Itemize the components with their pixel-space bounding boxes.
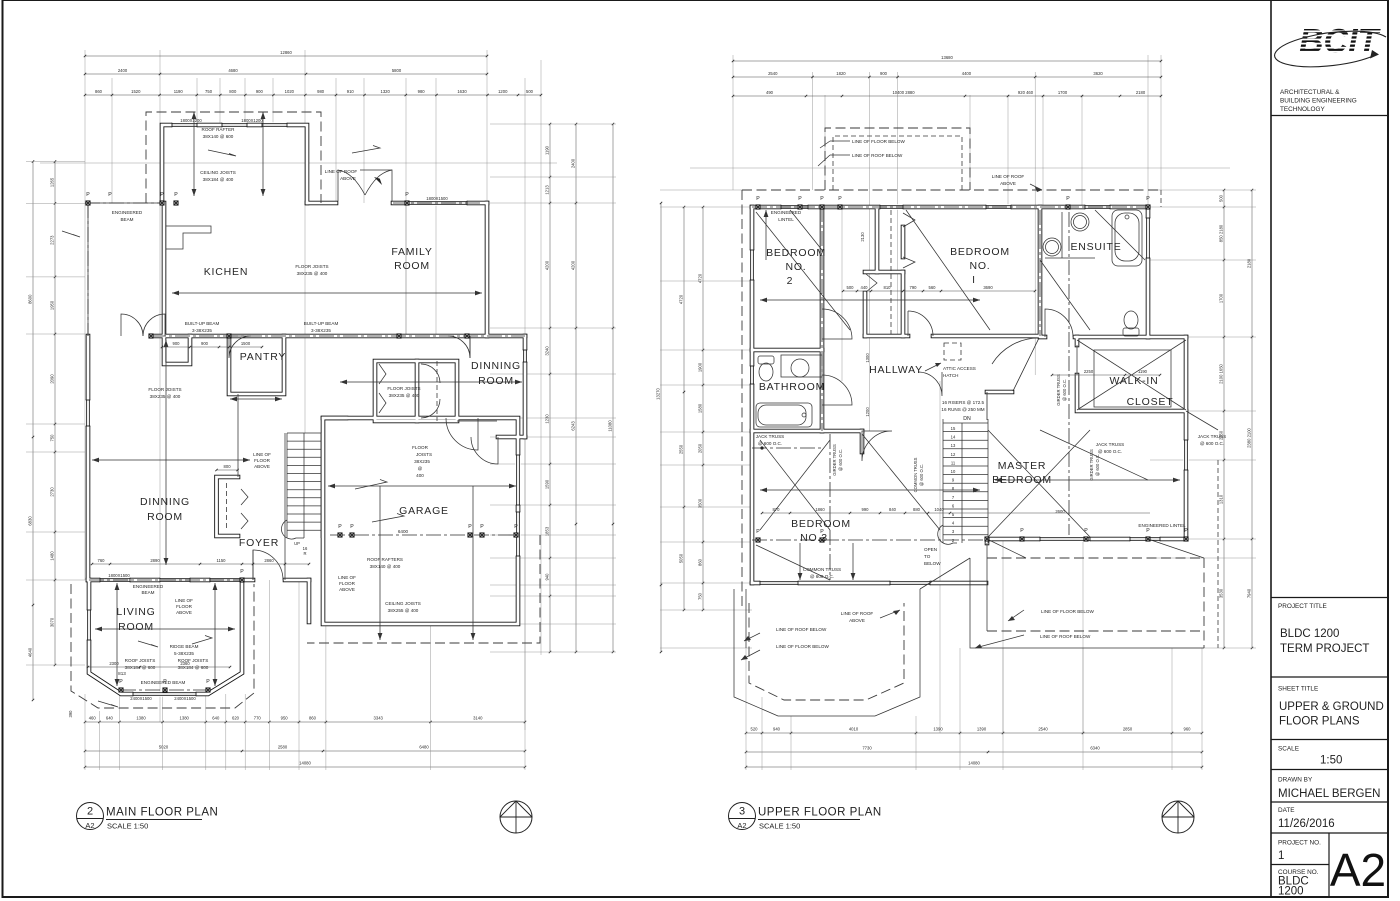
svg-text:NO.3: NO.3 (800, 532, 828, 544)
svg-text:ABOVE: ABOVE (176, 610, 192, 615)
svg-text:P: P (468, 524, 472, 530)
svg-text:10: 10 (951, 469, 956, 474)
svg-text:1: 1 (1278, 850, 1284, 862)
svg-text:2300: 2300 (109, 661, 119, 666)
svg-text:BUILT-UP BEAM: BUILT-UP BEAM (304, 321, 339, 326)
svg-text:5020: 5020 (159, 745, 169, 750)
svg-text:1700: 1700 (1219, 293, 1224, 303)
svg-text:LIVING: LIVING (116, 606, 155, 618)
svg-text:2130: 2130 (860, 232, 865, 242)
svg-text:ABOVE: ABOVE (849, 618, 865, 623)
svg-text:16 RUNS @ 250 MM: 16 RUNS @ 250 MM (941, 407, 984, 412)
middle wall (151, 335, 525, 337)
svg-text:LINE OF ROOF: LINE OF ROOF (325, 169, 358, 174)
svg-text:6400: 6400 (398, 529, 409, 534)
svg-text:HALLWAY: HALLWAY (869, 364, 923, 376)
svg-text:COMMON TRUSS: COMMON TRUSS (913, 457, 918, 492)
svg-text:P: P (206, 679, 210, 685)
svg-text:2360: 2360 (180, 661, 190, 666)
svg-text:860: 860 (698, 558, 703, 566)
svg-text:LINE OF ROOF: LINE OF ROOF (992, 174, 1025, 179)
pantry door (229, 336, 251, 358)
svg-text:2180: 2180 (1136, 90, 1146, 95)
svg-text:980: 980 (317, 89, 325, 94)
upper plan title (729, 803, 882, 831)
svg-text:2090: 2090 (50, 374, 55, 384)
dimension column x=703 (702, 207, 704, 610)
svg-text:LINE OF ROOF BELOW: LINE OF ROOF BELOW (776, 627, 827, 632)
svg-text:440: 440 (861, 285, 869, 290)
svg-text:BUILT-UP BEAM: BUILT-UP BEAM (185, 321, 220, 326)
dimension row y=564 (92, 563, 309, 565)
dimension row y=375 (1052, 374, 1160, 376)
dimension row y=347 (162, 346, 262, 348)
svg-text:5800: 5800 (392, 68, 402, 73)
svg-text:P: P (160, 192, 164, 198)
svg-text:790: 790 (910, 285, 918, 290)
svg-text:GIRDER TRUSS: GIRDER TRUSS (832, 444, 837, 476)
svg-text:770: 770 (254, 716, 262, 721)
dimension row y=77 (733, 76, 1161, 78)
svg-text:FLOOR: FLOOR (254, 458, 271, 463)
svg-text:1320: 1320 (380, 89, 390, 94)
svg-text:940: 940 (773, 727, 781, 732)
svg-text:LINE OF ROOF: LINE OF ROOF (841, 611, 874, 616)
svg-text:880: 880 (913, 507, 921, 512)
svg-text:1950: 1950 (50, 300, 55, 310)
dimension row y=96 (733, 95, 1161, 97)
svg-text:PANTRY: PANTRY (240, 351, 286, 363)
svg-text:BELOW: BELOW (924, 561, 941, 566)
svg-text:P: P (756, 529, 760, 535)
svg-text:JACK TRUSS: JACK TRUSS (756, 434, 785, 439)
foyer closet niche (217, 477, 239, 536)
svg-text:ENGINEERED: ENGINEERED (771, 210, 802, 215)
dimension row y=667 (88, 666, 230, 668)
living room bay walls (89, 580, 242, 694)
svg-text:38X255 @ 400: 38X255 @ 400 (388, 608, 419, 613)
posts upper (756, 205, 760, 209)
bed1 door (907, 311, 909, 336)
svg-text:620: 620 (232, 716, 240, 721)
svg-text:MICHAEL BERGEN: MICHAEL BERGEN (1278, 788, 1380, 800)
svg-text:P: P (1066, 196, 1070, 202)
svg-text:P: P (108, 192, 112, 198)
svg-text:ARCHITECTURAL &: ARCHITECTURAL & (1280, 89, 1340, 96)
svg-text:3500: 3500 (698, 498, 703, 508)
dimension column x=684 (683, 207, 685, 610)
svg-text:3140: 3140 (473, 716, 483, 721)
svg-text:A2: A2 (1330, 844, 1386, 896)
dimension column x=576 (575, 124, 577, 652)
svg-text:960: 960 (1184, 727, 1192, 732)
svg-text:6243: 6243 (571, 421, 576, 431)
dashed roofline living bay (71, 584, 254, 708)
svg-text:ABOVE: ABOVE (339, 587, 355, 592)
ensuite counter (1045, 212, 1095, 258)
bathroom tub (756, 403, 812, 427)
svg-text:ENGINEERED BEAM: ENGINEERED BEAM (141, 680, 186, 685)
svg-text:@ 600 O.C.: @ 600 O.C. (1062, 379, 1067, 401)
svg-text:LINE OF FLOOR BELOW: LINE OF FLOOR BELOW (776, 644, 830, 649)
svg-text:FOYER: FOYER (239, 537, 279, 549)
svg-text:ENSUITE: ENSUITE (1070, 241, 1121, 253)
svg-text:1265: 1265 (50, 177, 55, 187)
garage walls (323, 418, 518, 624)
horizontal ext line y163 (40, 162, 557, 164)
svg-text:BLDC 1200: BLDC 1200 (1280, 628, 1339, 640)
svg-text:1480: 1480 (50, 551, 55, 561)
dashed roof outline upper (742, 189, 1161, 191)
beam posts (86, 201, 90, 205)
svg-text:1900: 1900 (698, 362, 703, 372)
svg-text:2540: 2540 (768, 71, 778, 76)
solid bay bedroom3 (734, 589, 920, 716)
svg-text:750: 750 (50, 434, 55, 442)
svg-text:1630: 1630 (457, 89, 467, 94)
svg-text:3530: 3530 (1219, 588, 1224, 598)
svg-text:ABOVE: ABOVE (1000, 181, 1016, 186)
bathroom door (822, 375, 852, 405)
bathroom bottom wall (752, 430, 822, 432)
svg-text:3690: 3690 (983, 285, 993, 290)
svg-text:P: P (798, 196, 802, 202)
svg-text:P: P (838, 196, 842, 202)
svg-text:850 2180: 850 2180 (1219, 224, 1224, 242)
svg-text:2540: 2540 (1038, 727, 1048, 732)
bed3 door (862, 431, 892, 461)
svg-text:1040: 1040 (934, 507, 944, 512)
svg-text:14080: 14080 (299, 761, 311, 766)
svg-text:UP: UP (294, 541, 300, 546)
dimension row y=752 (746, 751, 1202, 753)
svg-text:P: P (1184, 528, 1188, 534)
svg-text:2400: 2400 (571, 158, 576, 168)
svg-text:2580: 2580 (278, 745, 288, 750)
svg-text:ROOF JOISTS: ROOF JOISTS (125, 658, 156, 663)
svg-text:LINTEL: LINTEL (778, 217, 794, 222)
svg-text:2: 2 (87, 806, 93, 818)
svg-text:4720: 4720 (679, 294, 684, 304)
svg-text:1213: 1213 (545, 185, 550, 195)
svg-text:ROOM: ROOM (118, 621, 154, 633)
svg-text:760: 760 (98, 558, 106, 563)
svg-text:1200: 1200 (498, 89, 508, 94)
svg-text:5-38X235: 5-38X235 (174, 651, 194, 656)
ensuite right wall (1147, 207, 1149, 337)
svg-text:HATCH: HATCH (943, 373, 958, 378)
dimension column x=55 (54, 162, 56, 666)
svg-text:950: 950 (281, 716, 289, 721)
svg-text:ROOF RAFTER: ROOF RAFTER (202, 127, 236, 132)
wc toilet (1124, 311, 1138, 329)
svg-text:1200: 1200 (1278, 886, 1304, 898)
svg-text:ENGINEERED LINTEL: ENGINEERED LINTEL (1138, 523, 1186, 528)
svg-text:7940: 7940 (1247, 588, 1252, 598)
svg-text:@ 600 O.C.: @ 600 O.C. (1095, 454, 1100, 476)
svg-text:FLOOR JOISTS: FLOOR JOISTS (148, 387, 181, 392)
svg-text:GIRDER TRUSS: GIRDER TRUSS (1089, 449, 1094, 481)
svg-text:2: 2 (787, 275, 794, 287)
svg-text:@ 600 O.C.: @ 600 O.C. (1098, 449, 1122, 454)
left exterior wall (87, 336, 89, 580)
svg-text:LINE OF FLOOR BELOW: LINE OF FLOOR BELOW (852, 139, 906, 144)
svg-text:1520: 1520 (131, 89, 141, 94)
dimension column x=1224 (1223, 190, 1225, 648)
svg-text:13680: 13680 (941, 55, 953, 60)
svg-text:PROJECT TITLE: PROJECT TITLE (1278, 603, 1327, 610)
bed1/ensuite wall (1039, 207, 1041, 336)
svg-text:ENGINEERED: ENGINEERED (112, 210, 143, 215)
svg-text:38X184 @ 600: 38X184 @ 600 (125, 665, 156, 670)
svg-text:1860: 1860 (815, 507, 825, 512)
windows upper (781, 204, 808, 209)
svg-text:P: P (1146, 196, 1150, 202)
svg-text:1800X1200: 1800X1200 (180, 118, 202, 123)
svg-text:900: 900 (880, 71, 888, 76)
dimension column x=661 (660, 203, 662, 652)
svg-text:16 RISERS @ 172.5: 16 RISERS @ 172.5 (942, 400, 985, 405)
dashed roofline garage (307, 535, 540, 643)
svg-text:@ 600 O.C.: @ 600 O.C. (1200, 441, 1224, 446)
svg-text:800: 800 (224, 464, 232, 469)
svg-text:FLOOR: FLOOR (412, 445, 429, 450)
svg-text:3620: 3620 (1093, 71, 1103, 76)
svg-text:P: P (1020, 528, 1024, 534)
bathroom top wall (752, 349, 822, 351)
svg-text:2400: 2400 (118, 68, 128, 73)
north arrow upper (1162, 801, 1194, 833)
svg-text:2180: 2180 (1247, 258, 1252, 268)
extension lines from top dims (84, 50, 86, 580)
bifold doors closets (379, 364, 386, 413)
svg-text:BEAM: BEAM (120, 217, 133, 222)
svg-text:SCALE: SCALE (1278, 746, 1299, 753)
UPPER-FLOOR-PLAN group (656, 55, 1257, 770)
slope marks (208, 150, 236, 156)
svg-text:11: 11 (951, 460, 956, 465)
svg-text:TERM PROJECT: TERM PROJECT (1280, 643, 1369, 655)
svg-text:1300: 1300 (865, 353, 870, 363)
svg-text:BEDROOM: BEDROOM (950, 246, 1010, 258)
svg-text:560: 560 (929, 285, 937, 290)
svg-text:38X140 @ 400: 38X140 @ 400 (370, 564, 401, 569)
svg-text:TO: TO (924, 554, 931, 559)
svg-text:ABOVE: ABOVE (254, 464, 270, 469)
svg-text:1853: 1853 (545, 526, 550, 536)
svg-text:LINE OF: LINE OF (175, 598, 193, 603)
svg-text:DINNING: DINNING (471, 360, 521, 372)
walkin closet box (1077, 375, 1186, 411)
svg-text:3070: 3070 (50, 617, 55, 627)
svg-text:750: 750 (205, 89, 213, 94)
top wall mid segment (307, 202, 336, 204)
bathroom sink (791, 359, 809, 377)
svg-text:3-38X235: 3-38X235 (192, 328, 212, 333)
svg-text:CEILING JOISTS: CEILING JOISTS (200, 170, 236, 175)
svg-text:UPPER FLOOR PLAN: UPPER FLOOR PLAN (758, 807, 882, 819)
svg-text:900: 900 (173, 341, 181, 346)
svg-text:ATTIC ACCESS: ATTIC ACCESS (943, 366, 976, 371)
svg-text:P: P (820, 196, 824, 202)
bed2/hall wall (821, 207, 823, 431)
svg-text:10400 2880: 10400 2880 (892, 90, 915, 95)
svg-text:1800X1500: 1800X1500 (108, 573, 130, 578)
dimension row y=61 (733, 60, 1161, 62)
svg-text:1230: 1230 (545, 414, 550, 424)
svg-text:1190: 1190 (545, 145, 550, 155)
svg-text:1380: 1380 (180, 716, 190, 721)
svg-text:1190: 1190 (1138, 369, 1148, 374)
svg-text:1500: 1500 (241, 341, 251, 346)
svg-text:500: 500 (1219, 194, 1224, 202)
svg-text:ROOM: ROOM (147, 511, 183, 523)
svg-text:13270: 13270 (656, 388, 661, 400)
interior verticals upper (841, 207, 843, 381)
master entry wall (987, 391, 1012, 393)
svg-text:400: 400 (416, 473, 424, 478)
svg-text:2550: 2550 (679, 444, 684, 454)
svg-text:FLOOR: FLOOR (339, 581, 356, 586)
windows main floor (172, 122, 197, 127)
svg-text:1820: 1820 (836, 71, 846, 76)
dimension row y=767 (746, 766, 1202, 768)
entry door (253, 550, 283, 580)
svg-text:1700: 1700 (1058, 90, 1068, 95)
svg-text:FLOOR JOISTS: FLOOR JOISTS (387, 386, 420, 391)
svg-text:4200: 4200 (571, 260, 576, 270)
stairs main (287, 432, 321, 434)
svg-text:500: 500 (526, 89, 534, 94)
svg-text:38X235 @ 400: 38X235 @ 400 (150, 394, 181, 399)
svg-text:500: 500 (847, 285, 855, 290)
svg-text:JACK TRUSS: JACK TRUSS (1096, 442, 1125, 447)
svg-text:520: 520 (751, 727, 759, 732)
svg-text:KICHEN: KICHEN (204, 266, 248, 278)
svg-text:920 460: 920 460 (1018, 90, 1034, 95)
closet bifold upper (903, 213, 915, 268)
svg-text:P: P (174, 192, 178, 198)
dimension row y=291 (843, 290, 1035, 292)
ensuite sinks (1071, 213, 1089, 231)
svg-text:BEDROOM: BEDROOM (766, 247, 826, 259)
svg-text:640: 640 (212, 716, 220, 721)
svg-text:3: 3 (739, 806, 745, 818)
kitchen nook walls (162, 125, 307, 203)
svg-text:BEAM: BEAM (141, 590, 154, 595)
svg-text:@: @ (418, 466, 423, 471)
svg-text:LINE OF: LINE OF (338, 575, 356, 580)
svg-text:P: P (350, 524, 354, 530)
svg-text:1380: 1380 (136, 716, 146, 721)
svg-text:@ 600 O.C.: @ 600 O.C. (838, 449, 843, 471)
svg-text:UPPER & GROUND: UPPER & GROUND (1279, 701, 1384, 713)
svg-text:12: 12 (951, 452, 956, 457)
svg-text:R: R (303, 551, 306, 556)
svg-text:390: 390 (68, 710, 73, 718)
right outer dashed (1217, 460, 1219, 648)
dimension column x=1252 (1251, 190, 1253, 648)
svg-text:JACK TRUSS: JACK TRUSS (1198, 434, 1227, 439)
svg-text:4680: 4680 (228, 68, 238, 73)
svg-text:LINE OF FLOOR BELOW: LINE OF FLOOR BELOW (1041, 609, 1095, 614)
dinning door from family (448, 336, 470, 358)
svg-text:3-38X235: 3-38X235 (311, 328, 331, 333)
svg-text:SHEET TITLE: SHEET TITLE (1278, 686, 1318, 693)
svg-text:4010: 4010 (849, 727, 859, 732)
svg-text:P: P (240, 569, 244, 575)
main plan title (77, 803, 219, 831)
svg-text:@ 600 O.C.: @ 600 O.C. (810, 574, 834, 579)
master double doors (918, 372, 942, 396)
svg-text:5050: 5050 (679, 553, 684, 563)
stairs upper (943, 422, 988, 424)
svg-text:11080: 11080 (608, 420, 613, 432)
svg-text:RIDGE BEAM: RIDGE BEAM (170, 644, 199, 649)
porch edge lines (85, 202, 162, 204)
svg-text:I: I (972, 274, 976, 286)
foyer wall to garage (285, 579, 309, 581)
svg-text:6480: 6480 (419, 745, 429, 750)
dimension row y=56 (85, 55, 487, 57)
svg-text:910: 910 (347, 89, 355, 94)
foyer partition line (237, 394, 239, 477)
svg-text:990: 990 (862, 507, 870, 512)
svg-text:2400X1500: 2400X1500 (130, 696, 152, 701)
svg-text:800: 800 (229, 89, 237, 94)
BCIT logo (1275, 24, 1386, 67)
svg-text:FAMILY: FAMILY (391, 246, 432, 258)
svg-text:38X184 @ 400: 38X184 @ 400 (203, 177, 234, 182)
french door arcs family/top (338, 170, 365, 201)
svg-text:CEILING JOISTS: CEILING JOISTS (385, 601, 421, 606)
svg-text:DRAWN BY: DRAWN BY (1278, 777, 1313, 784)
upper top wall (752, 206, 1148, 208)
dimension column x=550 (549, 124, 551, 652)
svg-text:14: 14 (951, 435, 956, 440)
svg-text:P: P (405, 192, 409, 198)
bathroom toilet (759, 363, 773, 381)
long interior verticals (159, 336, 161, 722)
svg-text:2730: 2730 (50, 487, 55, 497)
garage top door (446, 418, 478, 450)
svg-text:BATHROOM: BATHROOM (759, 381, 825, 393)
svg-text:2850: 2850 (1123, 727, 1133, 732)
master bottom wall (987, 538, 1186, 540)
svg-text:@ 600 O.C.: @ 600 O.C. (919, 464, 924, 486)
svg-text:P: P (119, 679, 123, 685)
dimension row y=95 (85, 94, 541, 96)
svg-text:1020: 1020 (285, 89, 295, 94)
svg-text:2100 1650: 2100 1650 (1219, 363, 1224, 383)
dimension column x=613 (612, 124, 614, 652)
ensuite tub (1112, 210, 1142, 266)
svg-text:3240: 3240 (545, 346, 550, 356)
svg-text:900: 900 (201, 341, 209, 346)
svg-text:4200: 4200 (545, 260, 550, 270)
dinning right wall (524, 336, 526, 437)
dinning lower-right door (471, 437, 498, 464)
svg-text:2273: 2273 (50, 235, 55, 245)
MAIN-FLOOR-PLAN group (26, 50, 616, 770)
jack truss line bathroom (752, 447, 822, 449)
svg-text:4400: 4400 (962, 71, 972, 76)
dashed bay bedroom3 (749, 603, 904, 700)
span arrows (172, 292, 482, 294)
svg-text:4640: 4640 (28, 647, 33, 657)
ensuite bottom wall (1040, 336, 1045, 338)
upper left wall (751, 207, 753, 583)
